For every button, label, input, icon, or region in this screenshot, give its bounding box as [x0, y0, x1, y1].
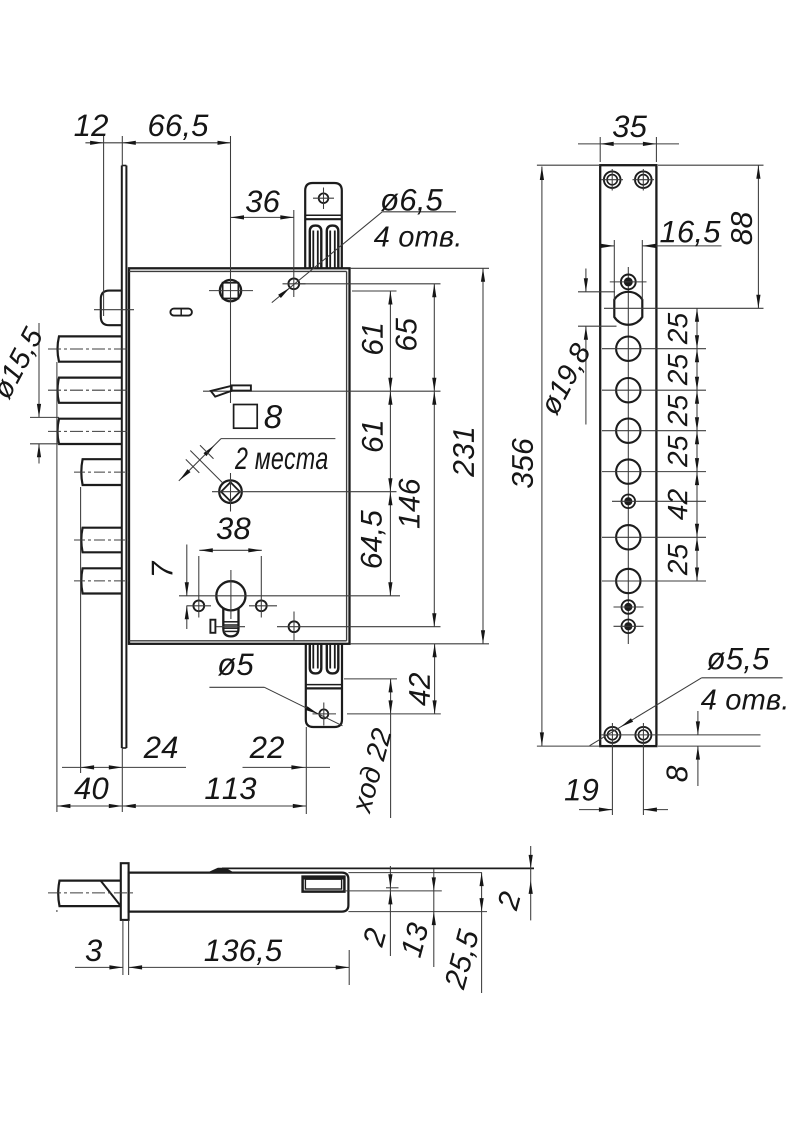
- chain 25 (5): [695, 537, 699, 551]
- plate vertical centerline: [627, 267, 629, 644]
- lock body inner plate edge: [129, 270, 347, 272]
- dimension 3: [122, 920, 124, 975]
- hole C2: [616, 378, 640, 402]
- dimension 66,5: [218, 141, 232, 145]
- lower bolt B6 centerline: [74, 580, 129, 582]
- bottom screws horizontal line: [602, 734, 761, 736]
- dimension 13: [433, 869, 435, 967]
- latch lever bar: [232, 385, 251, 390]
- faceplate front plate: [600, 165, 656, 746]
- leader 2 places: [221, 438, 335, 440]
- dimension 16,5: [613, 240, 615, 300]
- euro cylinder thread lines: [223, 621, 238, 623]
- cover plate line: [222, 867, 534, 869]
- lever tip bump: [209, 868, 233, 872]
- latch lever reference line: [203, 390, 441, 392]
- euro cylinder vertical centerline: [230, 570, 232, 619]
- dimension d15,5: [30, 416, 59, 418]
- bottom tab spring slot left: [310, 644, 322, 674]
- latch bolt (stadium) on faceplate: [101, 291, 122, 326]
- bottom screw hole left: [604, 727, 620, 743]
- dimension 25,5: [481, 873, 483, 993]
- deadbolt (top view): [58, 881, 121, 907]
- night latch hub H2: [219, 480, 242, 503]
- small hole C with pin: [622, 600, 636, 614]
- euro cylinder hole: [216, 581, 245, 610]
- slot opening (top view): [303, 877, 345, 892]
- latch lever arm: [211, 386, 232, 397]
- leader d6.5 4 holes: [382, 211, 456, 213]
- hub H2 vertical centerline: [230, 473, 232, 512]
- case top extension line: [348, 872, 482, 874]
- hole near bottom edge: [289, 621, 300, 632]
- dimension 35: [599, 137, 601, 162]
- cylinder screw hole left: [193, 600, 204, 611]
- lower bolt B5: [81, 528, 122, 553]
- latch bolt centerline: [94, 309, 134, 311]
- dimension 2 slot plate: [389, 866, 391, 956]
- hole chain dimension line: [696, 308, 698, 581]
- dimension 2 cover plate: [530, 846, 532, 920]
- deadbolt chamfer: [101, 881, 121, 907]
- lower bolt B6: [81, 568, 122, 593]
- hole C4: [616, 459, 640, 483]
- fixing hole cross: [283, 283, 306, 285]
- dimension 7: [186, 545, 188, 596]
- lower bolt B4: [81, 459, 122, 485]
- top tab spring slot right: [327, 226, 339, 269]
- lock case (top view): [129, 873, 349, 912]
- chain 42: [695, 472, 699, 486]
- small hole A with pin: [621, 275, 636, 290]
- bottom screw hole right: [635, 727, 651, 743]
- top screw hole left: [604, 171, 621, 188]
- chain 25 (1): [695, 308, 699, 322]
- top tab spring slot left: [310, 226, 322, 269]
- dimension 113: [293, 804, 307, 808]
- dimension d19,8: [578, 291, 615, 293]
- deadbolt B3: [58, 419, 122, 444]
- fixing hole d6.5: [288, 278, 299, 289]
- dimension 19: [611, 745, 613, 815]
- hub H1 long vertical centerline: [230, 136, 232, 403]
- case bottom extension: [348, 911, 487, 913]
- square follower hub H1: [220, 280, 241, 301]
- dimension 146: [432, 613, 436, 627]
- chain 25 (4): [695, 431, 699, 445]
- euro cylinder horizontal line: [179, 595, 400, 597]
- hole C6: [616, 569, 640, 593]
- dimension 22: [243, 766, 331, 768]
- lower bolt B4 centerline: [74, 471, 129, 473]
- hub H2 horizontal centerline + extension: [212, 491, 397, 493]
- dimension 61 upper: [352, 290, 397, 292]
- hex hole horizontal centerline: [604, 307, 764, 309]
- chain 25 (2): [695, 349, 699, 363]
- faceplate bar (top view): [121, 863, 129, 920]
- dimension 136,5: [348, 950, 350, 985]
- bottom tab hole cross: [313, 713, 337, 715]
- cylinder hex hole d19.8: [614, 292, 642, 325]
- extension of bolt end (top view): [56, 910, 58, 912]
- faceplate strip (front view): [121, 166, 123, 749]
- oval slot divider: [180, 309, 182, 316]
- dimension 231: [350, 267, 489, 269]
- top tab hole: [319, 193, 329, 203]
- leader d5: [209, 686, 264, 688]
- hole C3: [616, 419, 640, 443]
- top screw hole right: [635, 171, 652, 188]
- retainer pin: [210, 620, 215, 633]
- hub H1 square: [223, 283, 239, 299]
- bottom tab hole d5: [319, 709, 328, 718]
- top mounting tab: [305, 183, 342, 268]
- label 8: [265, 405, 282, 428]
- bottom tab spring slot right: [327, 644, 339, 674]
- bottom mounting tab: [306, 644, 342, 727]
- dimension 356: [537, 164, 600, 166]
- top tab hole cross: [313, 197, 334, 199]
- lock body outer case: [129, 268, 350, 644]
- deadbolt centerline (top view): [48, 892, 134, 894]
- square hole symbol 8: [234, 405, 258, 429]
- dimension 61 lower: [388, 492, 392, 506]
- top tab bands: [305, 214, 342, 216]
- deadbolt B1 centerline: [48, 348, 129, 350]
- chain 25 (3): [695, 390, 699, 404]
- deadbolt B2 centerline: [48, 389, 129, 391]
- slot bottom extension: [344, 890, 441, 892]
- slot inner extension tick: [386, 887, 399, 889]
- dimension 64,5: [388, 582, 392, 596]
- dimension 24: [62, 766, 186, 768]
- dimension 88: [658, 164, 764, 166]
- dimension 8 right view: [658, 745, 761, 747]
- hub H2 diamond: [221, 482, 240, 501]
- deadbolt B3 centerline: [48, 430, 129, 432]
- hole C5: [616, 525, 640, 549]
- dimension 40: [57, 805, 306, 807]
- bottom tab bands: [306, 684, 342, 686]
- cylinder screw hole right: [256, 600, 267, 611]
- deadbolt B1: [58, 336, 122, 361]
- oval slot: [170, 309, 192, 316]
- dimension 42 bottom: [347, 713, 441, 715]
- leader d5,5 4 holes: [702, 677, 783, 679]
- dimension stroke 22: [344, 678, 397, 680]
- small hole B with pin: [622, 495, 636, 509]
- deadbolt B2: [58, 378, 122, 403]
- dimension 65: [300, 283, 441, 285]
- small hole D with pin: [622, 620, 636, 634]
- hole C1: [616, 337, 640, 361]
- dimension 38: [199, 549, 261, 551]
- dimension 12: [85, 142, 231, 144]
- hub H1 horizontal centerline: [209, 290, 253, 292]
- label 2 places: [235, 447, 328, 469]
- dimension 36: [231, 216, 294, 218]
- lower bolt B5 centerline: [74, 539, 129, 541]
- extension lines bottom-left: [56, 362, 58, 812]
